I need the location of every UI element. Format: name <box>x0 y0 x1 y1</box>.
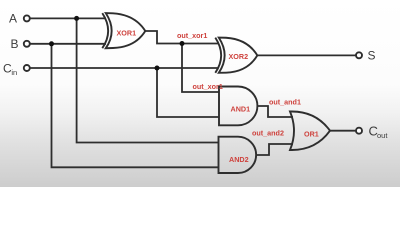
svg-text:AND2: AND2 <box>229 155 249 164</box>
svg-text:out: out <box>377 131 388 140</box>
svg-text:out_xor1: out_xor1 <box>177 31 207 40</box>
svg-text:S: S <box>368 49 376 63</box>
svg-text:out_xor1: out_xor1 <box>193 82 223 91</box>
svg-text:AND1: AND1 <box>231 105 251 114</box>
svg-text:out_and1: out_and1 <box>269 97 301 106</box>
svg-text:XOR1: XOR1 <box>117 29 137 38</box>
svg-text:A: A <box>9 12 17 26</box>
svg-text:XOR2: XOR2 <box>229 52 249 61</box>
svg-text:OR1: OR1 <box>304 130 319 139</box>
svg-text:out_and2: out_and2 <box>252 128 284 137</box>
svg-text:in: in <box>11 68 17 77</box>
svg-text:B: B <box>11 37 19 51</box>
